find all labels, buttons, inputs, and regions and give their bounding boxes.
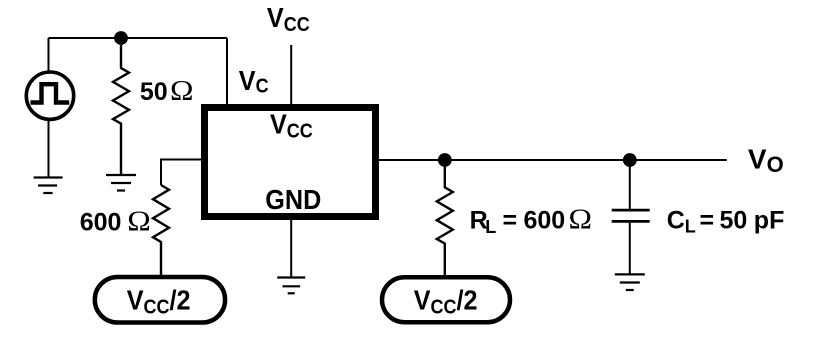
svg-text:Ω: Ω [170, 76, 194, 107]
svg-text:VCC/2: VCC/2 [127, 284, 191, 318]
svg-text:L: L [685, 217, 696, 237]
svg-text:Ω: Ω [569, 204, 593, 235]
wire 600 ohm resistor to box left pin [161, 160, 204, 186]
wire source top lead [48, 38, 50, 73]
label RL = 600 ohm [470, 204, 592, 237]
svg-text:pF: pF [754, 206, 785, 234]
svg-text:VO: VO [748, 144, 784, 177]
ground below box [277, 278, 305, 294]
label VCC top [267, 2, 310, 36]
wire output from box to VO [379, 159, 727, 161]
label VCC inside box [270, 108, 313, 142]
junction dot output at RL [438, 153, 452, 167]
svg-text:VCC/2: VCC/2 [414, 284, 478, 318]
svg-text:VCC: VCC [270, 108, 313, 142]
ground below 50 ohm resistor [106, 175, 136, 191]
svg-text:Ω: Ω [127, 206, 151, 237]
resistor 600 ohm [153, 185, 169, 277]
svg-text:L: L [485, 217, 496, 237]
svg-text:50: 50 [720, 206, 748, 234]
label GND inside box [265, 184, 321, 216]
svg-text:VCC: VCC [267, 2, 310, 36]
wire vertical drop to VC pin [226, 38, 228, 105]
pill VCC/2 right [382, 277, 510, 322]
wire node A horizontal [49, 37, 228, 39]
capacitor CL [612, 160, 650, 273]
svg-text:50: 50 [140, 78, 168, 106]
svg-text:GND: GND [265, 184, 321, 216]
label VO [748, 144, 784, 177]
svg-text:600: 600 [80, 209, 122, 237]
label 600 ohm [80, 206, 151, 237]
ground below capacitor [615, 274, 645, 290]
resistor RL [437, 160, 453, 277]
wire VCC supply to box [290, 45, 292, 105]
pill VCC/2 left [95, 277, 225, 323]
DUT box U1 [205, 108, 376, 217]
label 50 ohm [140, 76, 194, 107]
label CL = 50 pF [667, 206, 785, 236]
junction dot output at CL [623, 153, 637, 167]
wire box GND lead [290, 220, 292, 277]
label VC [239, 65, 269, 98]
node A junction dot [114, 31, 128, 45]
ground below source [34, 178, 63, 194]
label VCC/2 left [127, 284, 191, 318]
label VCC/2 right [414, 284, 478, 318]
svg-text:VC: VC [239, 65, 269, 98]
pulse generator source [26, 72, 73, 119]
resistor 50 ohm [113, 45, 129, 175]
svg-text:C: C [667, 206, 685, 234]
wire source bottom lead [48, 119, 50, 177]
svg-text:=: = [700, 206, 715, 234]
svg-text:600: 600 [524, 206, 566, 234]
svg-text:=: = [503, 206, 518, 234]
